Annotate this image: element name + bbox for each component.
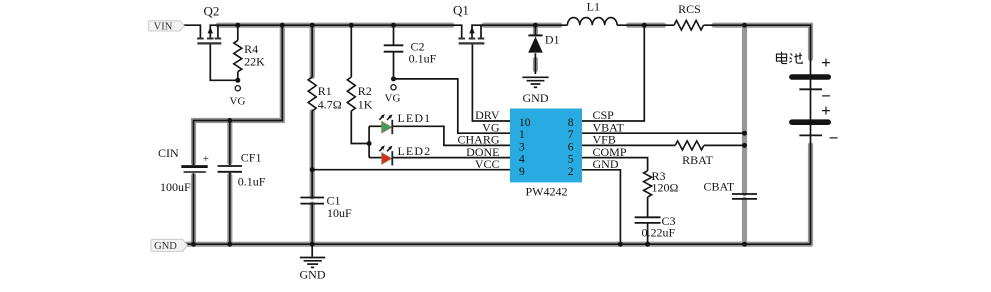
LED2 (red) xyxy=(379,144,431,166)
svg-text:CF1: CF1 xyxy=(241,151,262,165)
svg-text:0.1uF: 0.1uF xyxy=(409,52,437,66)
wire VCC pin to R1/C1 junction xyxy=(312,169,510,171)
wire VIN flag to Q2 xyxy=(184,24,201,26)
transistor Q2 xyxy=(197,4,221,44)
diode D1 xyxy=(528,33,559,53)
wire top rail Q2 drain to Q1 xyxy=(210,24,461,26)
wire LED1 to CHARG pin xyxy=(369,126,510,145)
wire VIN net highlight (top rail Q2 to Q1) xyxy=(218,23,452,28)
wire R2 branch to LED junction xyxy=(351,25,369,157)
svg-text:4: 4 xyxy=(519,154,525,166)
svg-text:R2: R2 xyxy=(358,84,372,98)
capacitor C1 xyxy=(300,194,352,221)
wire VBAT vertical highlight xyxy=(742,25,747,244)
net flag VIN xyxy=(149,21,185,33)
svg-text:+: + xyxy=(203,153,209,165)
junction dot CF1 tap xyxy=(227,118,232,123)
wire R1 C1 branch xyxy=(311,25,313,244)
wire VFB pin to RBAT xyxy=(582,144,745,146)
resistor R2 xyxy=(347,77,372,112)
svg-text:GND: GND xyxy=(593,157,619,171)
wire Q1 gate to DRV pin xyxy=(472,45,510,122)
wire battery to GND rail xyxy=(810,78,812,244)
junction dot VG under C2 xyxy=(391,76,396,81)
resistor R4 xyxy=(234,25,265,80)
svg-text:0.22uF: 0.22uF xyxy=(642,226,676,240)
wire Q2 gate to VG node xyxy=(210,45,238,81)
junction dots top rail xyxy=(235,23,747,28)
wire L1-RCS node highlight xyxy=(628,23,663,28)
wire VG node to pin VG xyxy=(394,79,511,133)
svg-text:3: 3 xyxy=(519,141,525,153)
wire RCS to battery top xyxy=(704,25,811,74)
capacitor CIN xyxy=(158,146,209,194)
capacitor CF1 xyxy=(218,151,266,189)
LED1 (green) xyxy=(379,111,431,134)
wire GND rail highlight xyxy=(186,242,811,247)
svg-text:120Ω: 120Ω xyxy=(652,181,679,195)
svg-text:VG: VG xyxy=(385,93,401,105)
svg-text:RCS: RCS xyxy=(678,2,701,16)
battery (2-cell) xyxy=(789,53,838,148)
resistor R1 xyxy=(308,77,342,112)
wire D1 to switch node xyxy=(534,25,536,74)
svg-text:VCC: VCC xyxy=(475,157,500,171)
wire RCS to battery rail highlight xyxy=(714,25,811,58)
resistor R3 xyxy=(644,169,679,197)
pin numbers left (10 1 3 4 9) xyxy=(519,117,531,178)
svg-text:22K: 22K xyxy=(244,54,265,68)
svg-text:CIN: CIN xyxy=(158,146,179,160)
svg-text:7: 7 xyxy=(568,129,574,141)
wire CF1 branch xyxy=(229,121,231,245)
wire D1 stub highlights xyxy=(533,25,538,69)
wire switch-node highlight (Q1 to L1) xyxy=(484,23,560,28)
transistor Q1 xyxy=(453,3,484,44)
svg-text:10uF: 10uF xyxy=(327,206,352,220)
svg-text:10: 10 xyxy=(519,117,531,129)
label battery 电池 (drawn glyphs) xyxy=(776,52,802,64)
junction dot VG under R4 xyxy=(235,78,240,83)
svg-text:8: 8 xyxy=(568,117,574,129)
svg-text:1: 1 xyxy=(519,129,525,141)
capacitor CBAT xyxy=(704,180,758,199)
capacitor C3 xyxy=(635,214,676,240)
svg-text:+: + xyxy=(821,101,831,120)
resistor RBAT xyxy=(675,141,713,167)
wire Q1 to L1 xyxy=(472,24,567,26)
svg-text:GND: GND xyxy=(154,241,177,252)
wire LED2 to DONE pin xyxy=(369,157,510,159)
svg-text:Q1: Q1 xyxy=(453,3,469,18)
svg-text:−: − xyxy=(829,129,839,148)
wire CIN feeder highlight xyxy=(194,25,283,244)
node VG (under C2) xyxy=(385,85,401,105)
wire L1 to RCS xyxy=(617,24,674,26)
svg-text:+: + xyxy=(821,53,831,72)
ground (D1) xyxy=(522,77,548,105)
pin labels right (CSP VBAT VFB COMP GND) xyxy=(593,108,627,171)
svg-text:5: 5 xyxy=(568,154,574,166)
junction dot VCC tap xyxy=(310,167,315,172)
wire CIN feeder xyxy=(194,25,283,244)
capacitor C2 xyxy=(384,40,437,66)
svg-text:Q2: Q2 xyxy=(204,4,220,19)
inductor L1 xyxy=(567,0,617,25)
svg-text:4.7Ω: 4.7Ω xyxy=(318,98,342,112)
wire R3 to C3 xyxy=(647,197,649,217)
svg-text:CBAT: CBAT xyxy=(704,180,735,194)
wire GND rail xyxy=(186,243,811,245)
svg-text:9: 9 xyxy=(519,166,525,178)
svg-text:PW4242: PW4242 xyxy=(526,184,568,198)
wire CSP pin to L1/RCS node xyxy=(582,25,644,121)
junction dot LED driver xyxy=(367,141,372,146)
net flag GND xyxy=(151,239,187,252)
wire VBAT pin to battery net xyxy=(582,132,745,134)
svg-text:2: 2 xyxy=(568,166,574,178)
wire C3 to GND rail xyxy=(647,223,649,244)
svg-text:GND: GND xyxy=(300,268,326,282)
svg-text:1K: 1K xyxy=(358,98,373,112)
svg-text:100uF: 100uF xyxy=(160,180,191,194)
wire COMP pin to R3 xyxy=(582,158,648,171)
pin numbers right (8 7 6 5 2) xyxy=(568,117,574,178)
svg-text:VIN: VIN xyxy=(154,21,173,32)
svg-text:0.1uF: 0.1uF xyxy=(238,174,266,188)
svg-text:RBAT: RBAT xyxy=(682,153,713,167)
svg-text:LED1: LED1 xyxy=(398,111,432,125)
wire battery bottom highlight xyxy=(808,145,813,244)
svg-text:GND: GND xyxy=(523,91,549,105)
svg-text:VG: VG xyxy=(230,96,246,108)
junction dots battery net xyxy=(742,131,747,148)
svg-text:6: 6 xyxy=(568,141,574,153)
IC U1 PW4242 xyxy=(510,109,582,199)
wire GND pin to rail xyxy=(582,170,620,244)
resistor RCS xyxy=(674,2,704,30)
junction dots GND rail xyxy=(191,242,747,247)
node VG (under R4) xyxy=(230,86,246,108)
svg-text:LED2: LED2 xyxy=(398,144,432,158)
svg-text:L1: L1 xyxy=(587,0,600,14)
pin labels left (DRV VG CHARG DONE VCC) xyxy=(457,108,499,171)
svg-text:D1: D1 xyxy=(545,33,560,47)
ground (main GND rail) xyxy=(300,244,326,281)
svg-text:R1: R1 xyxy=(318,84,332,98)
wire R1/C1 branch highlight xyxy=(310,25,315,244)
wire C2 branch xyxy=(393,25,395,79)
